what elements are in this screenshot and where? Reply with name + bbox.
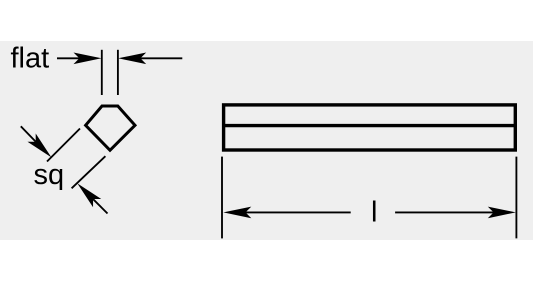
- svg-text:l: l: [371, 196, 377, 228]
- l dimension left arrow: [223, 207, 350, 219]
- sq dimension upper arrow: [21, 126, 52, 157]
- flat dimension right arrow: [118, 53, 182, 65]
- flat extension line left: [101, 50, 103, 95]
- flat extension line right: [117, 50, 119, 95]
- svg-text:sq: sq: [34, 159, 65, 191]
- sq dimension lower arrow: [77, 183, 107, 213]
- l dimension right arrow: [395, 207, 516, 219]
- svg-text:flat: flat: [11, 43, 50, 75]
- l extension line left: [221, 157, 223, 239]
- key bar outline: [224, 105, 516, 150]
- key bar middle line: [224, 124, 516, 127]
- square key cross-section: [86, 106, 135, 150]
- sq extension line upper: [47, 129, 80, 162]
- gray drawing background band: [0, 41, 533, 240]
- l extension line right: [515, 157, 517, 239]
- flat dimension left arrow: [57, 53, 102, 65]
- sq extension line lower: [72, 156, 106, 188]
